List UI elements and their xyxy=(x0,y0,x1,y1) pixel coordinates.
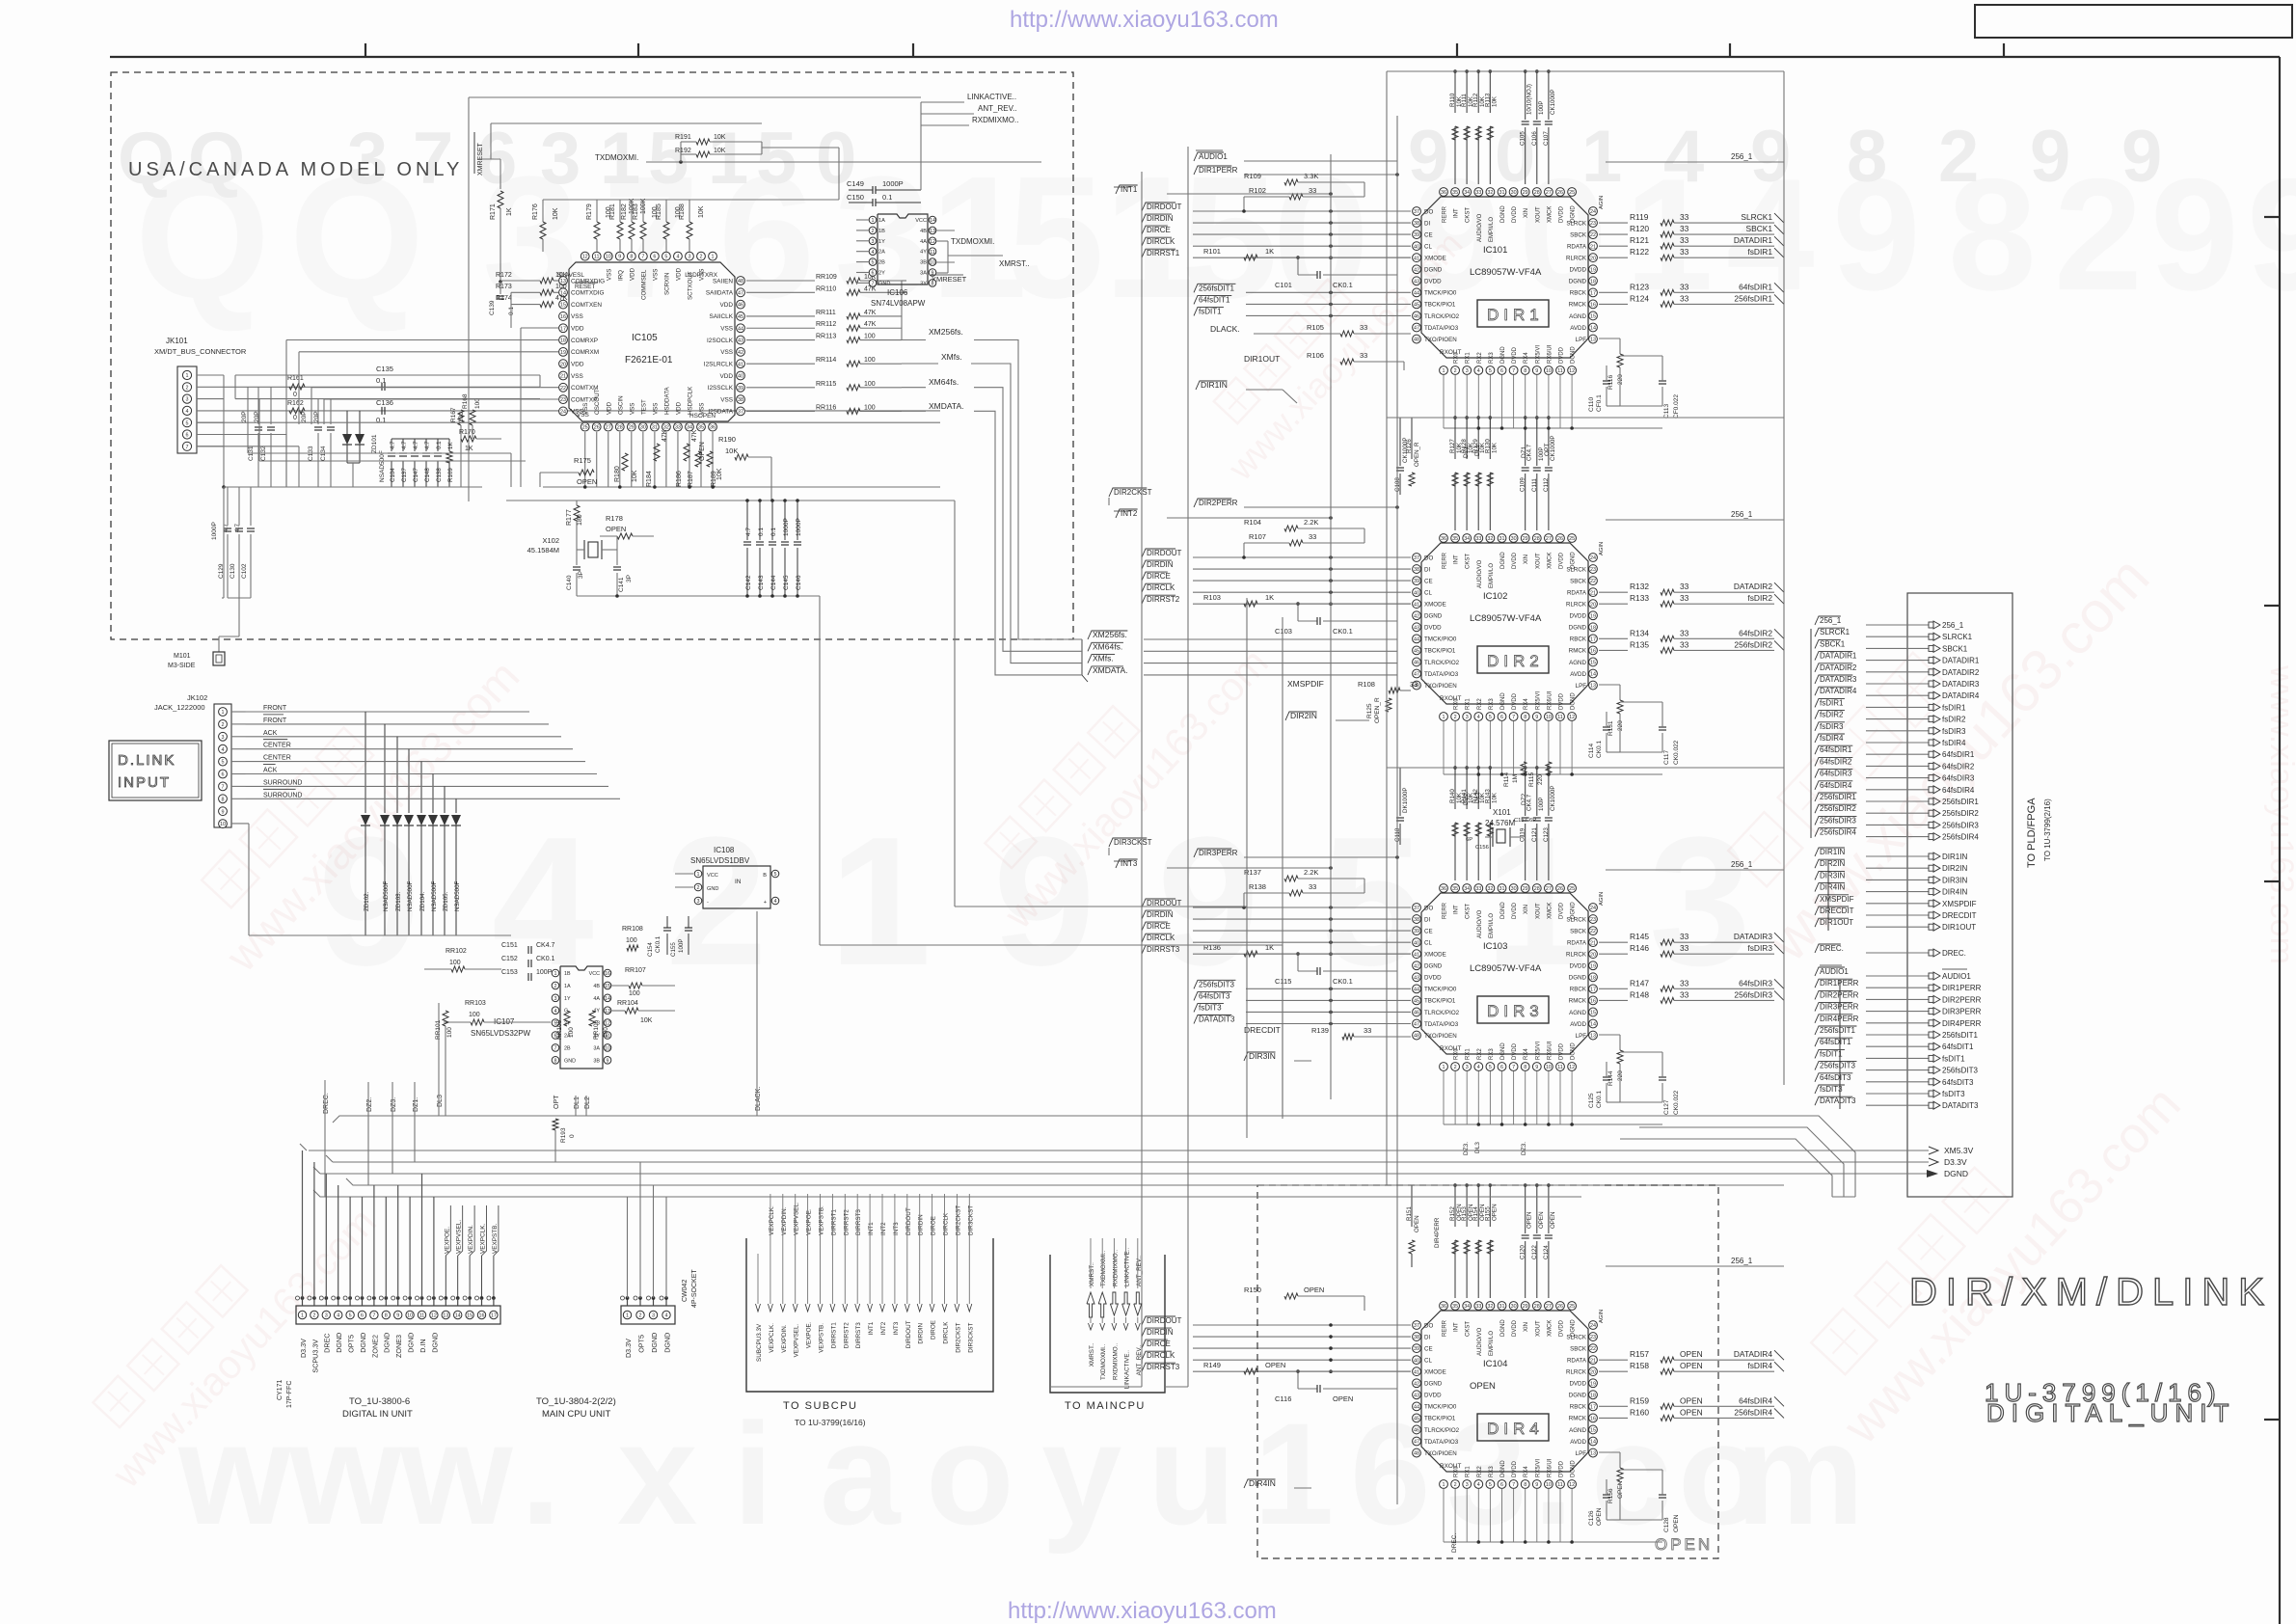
svg-text:C110: C110 xyxy=(1588,397,1595,412)
net stub DZ2. xyxy=(366,1082,373,1116)
svg-text:XMCK: XMCK xyxy=(1547,206,1553,223)
wire TXDMOXMI top xyxy=(646,161,1041,163)
svg-text:XMODE: XMODE xyxy=(1424,952,1446,959)
svg-text:C106: C106 xyxy=(1531,131,1538,146)
svg-text:RLRCK: RLRCK xyxy=(1566,1369,1587,1376)
svg-text:VDD: VDD xyxy=(629,267,635,281)
svg-text:DIR1IN: DIR1IN xyxy=(1201,380,1228,390)
svg-text:DVDD: DVDD xyxy=(1559,346,1565,364)
svg-text:DGND: DGND xyxy=(1500,1042,1506,1060)
svg-text:0: 0 xyxy=(293,415,297,421)
svg-text:RLRCK: RLRCK xyxy=(1566,602,1587,609)
svg-text:ZD105.: ZD105. xyxy=(443,891,449,911)
svg-text:DO: DO xyxy=(1424,1322,1433,1329)
svg-text:10K: 10K xyxy=(1491,442,1498,453)
svg-text:DVDD: DVDD xyxy=(1559,205,1565,223)
svg-text:R180: R180 xyxy=(614,466,621,482)
svg-text:DVDD: DVDD xyxy=(1512,1319,1518,1337)
svg-text:CE: CE xyxy=(1424,578,1433,584)
svg-text:10: 10 xyxy=(1546,715,1552,720)
svg-text:OPEN: OPEN xyxy=(1550,1211,1556,1229)
ic IC108 SN65LVDS1DBV xyxy=(675,846,779,908)
svg-text:x: x xyxy=(617,1393,697,1555)
rc network below-right of IC103 xyxy=(1588,1035,1680,1115)
svg-text:ZD103.: ZD103. xyxy=(395,891,402,911)
svg-text:RR109: RR109 xyxy=(816,274,837,281)
svg-text:DIR3PERR: DIR3PERR xyxy=(1199,849,1238,857)
svg-text:46: 46 xyxy=(1414,314,1419,320)
svg-text:17: 17 xyxy=(1590,290,1596,296)
svg-text:30: 30 xyxy=(1511,886,1517,892)
svg-text:64fsDIR3: 64fsDIR3 xyxy=(1820,770,1852,778)
svg-text:DIR2PERR: DIR2PERR xyxy=(1942,995,1982,1004)
svg-text:27: 27 xyxy=(606,425,611,431)
svg-text:fsDIT1: fsDIT1 xyxy=(1942,1054,1965,1063)
svg-text:2: 2 xyxy=(186,385,189,391)
svg-text:JK101: JK101 xyxy=(166,337,188,345)
svg-text:30: 30 xyxy=(640,425,646,431)
svg-text:15: 15 xyxy=(467,1313,473,1319)
svg-text:EMPII/LO: EMPII/LO xyxy=(1489,563,1495,588)
svg-text:RX5/VI: RX5/VI xyxy=(1535,345,1541,364)
svg-text:64fsDIT1: 64fsDIT1 xyxy=(1820,1038,1851,1046)
svg-text:C115: C115 xyxy=(1275,977,1291,986)
svg-text:5: 5 xyxy=(756,118,797,200)
svg-text:100P: 100P xyxy=(536,969,553,976)
svg-text:SLRCK: SLRCK xyxy=(1566,220,1587,227)
svg-text:DI: DI xyxy=(1424,220,1430,227)
svg-text:R143: R143 xyxy=(1484,789,1491,803)
svg-text:DIR2IN: DIR2IN xyxy=(1942,864,1967,873)
rc network below-right of IC102 xyxy=(1588,685,1680,765)
svg-text:256fsDIR4: 256fsDIR4 xyxy=(1734,1407,1772,1417)
svg-text:44: 44 xyxy=(1414,636,1419,642)
svg-text:10K: 10K xyxy=(632,470,638,482)
svg-text:16: 16 xyxy=(479,1313,485,1319)
svg-text:RMCK: RMCK xyxy=(1569,998,1587,1005)
svg-text:29: 29 xyxy=(1523,886,1528,892)
svg-text:64fsDIR1: 64fsDIR1 xyxy=(1820,745,1852,754)
net flags left of IC101 xyxy=(1114,166,1411,317)
svg-text:NSAD500F: NSAD500F xyxy=(383,880,390,911)
svg-text:DL1: DL1 xyxy=(1474,445,1481,456)
svg-text:33: 33 xyxy=(1680,212,1689,222)
svg-text:R145: R145 xyxy=(1630,932,1649,941)
svg-text:256fsDIR2: 256fsDIR2 xyxy=(1942,809,1979,818)
svg-text:LPF: LPF xyxy=(1576,1450,1587,1457)
svg-text:CK1000P: CK1000P xyxy=(1550,90,1556,116)
svg-text:DLACK.: DLACK. xyxy=(1210,324,1240,334)
svg-text:XMSPDIF: XMSPDIF xyxy=(1287,679,1324,689)
wires IC105 bottom stubs and rails xyxy=(506,432,955,501)
svg-text:20: 20 xyxy=(1590,602,1596,608)
svg-text:TXDMOXMI..: TXDMOXMI.. xyxy=(1100,1250,1107,1286)
svg-text:10K: 10K xyxy=(698,205,705,218)
svg-text:DIR2PERR: DIR2PERR xyxy=(1199,499,1238,507)
svg-text:35: 35 xyxy=(698,425,704,431)
resistor/capacitor bank above IC103 xyxy=(1394,766,1784,880)
svg-text:R174: R174 xyxy=(496,295,512,302)
svg-text:AUDIO/VO: AUDIO/VO xyxy=(1477,213,1483,242)
svg-text:AGIN: AGIN xyxy=(1599,892,1605,906)
connector CW042 4P-SOCKET xyxy=(621,1269,699,1324)
svg-text:DVDD: DVDD xyxy=(1559,1319,1565,1337)
svg-text:0.1: 0.1 xyxy=(882,193,892,202)
svg-text:11: 11 xyxy=(594,255,600,260)
svg-text:D.IN: D.IN xyxy=(419,1339,427,1352)
svg-text:DGND: DGND xyxy=(662,1333,671,1353)
svg-text:DIRDOUT: DIRDOUT xyxy=(1147,549,1182,557)
svg-text:RX3: RX3 xyxy=(1489,1048,1495,1060)
svg-text:C144: C144 xyxy=(770,575,777,590)
svg-text:34: 34 xyxy=(1464,190,1470,196)
svg-text:33: 33 xyxy=(1475,1304,1481,1310)
svg-text:TLRCK/PIO2: TLRCK/PIO2 xyxy=(1424,313,1460,320)
svg-text:1: 1 xyxy=(222,710,225,716)
svg-text:256fsDIR4: 256fsDIR4 xyxy=(1820,828,1856,837)
svg-text:AUDIO1: AUDIO1 xyxy=(1820,967,1849,976)
svg-text:DGND: DGND xyxy=(407,1333,416,1353)
svg-text:41: 41 xyxy=(1414,1369,1419,1375)
svg-text:IC108: IC108 xyxy=(714,846,735,854)
svg-text:TXDMOXMI..: TXDMOXMI.. xyxy=(1100,1343,1107,1380)
svg-text:26: 26 xyxy=(1557,886,1563,892)
svg-text:OPEN: OPEN xyxy=(1680,1395,1703,1405)
svg-text:D.LINK: D.LINK xyxy=(118,752,176,769)
wire IC105 section loop xyxy=(469,97,921,501)
svg-text:20P: 20P xyxy=(301,411,308,422)
svg-text:37: 37 xyxy=(1414,555,1419,561)
capacitor C150 0.1 xyxy=(847,193,921,206)
svg-text:64fsDIR2: 64fsDIR2 xyxy=(1942,762,1975,771)
svg-text:TDATA/PIO3: TDATA/PIO3 xyxy=(1424,1439,1459,1446)
svg-text:DGND: DGND xyxy=(430,1333,439,1353)
svg-text:4: 4 xyxy=(1477,1482,1480,1488)
svg-text:DK1000P: DK1000P xyxy=(1402,788,1409,814)
svg-text:27: 27 xyxy=(1546,1304,1552,1310)
svg-text:21: 21 xyxy=(1590,244,1596,250)
svg-text:32: 32 xyxy=(1487,536,1493,542)
svg-text:9: 9 xyxy=(1750,116,1791,198)
svg-text:45: 45 xyxy=(1414,649,1419,655)
svg-text:R172: R172 xyxy=(496,272,512,279)
svg-text:15: 15 xyxy=(1590,661,1596,666)
svg-text:DVDD: DVDD xyxy=(1569,613,1586,620)
svg-text:33: 33 xyxy=(1680,247,1689,257)
net stubs below IC103 xyxy=(1463,1142,1527,1155)
svg-text:100: 100 xyxy=(446,1027,453,1038)
svg-text:DIR3: DIR3 xyxy=(1487,1002,1544,1020)
svg-text:OPEN: OPEN xyxy=(699,442,706,461)
svg-text:DGND: DGND xyxy=(1500,552,1506,569)
svg-text:TLRCK/PIO2: TLRCK/PIO2 xyxy=(1424,1010,1460,1016)
svg-text:C149: C149 xyxy=(847,179,864,188)
wire JK101 outputs xyxy=(197,375,940,489)
svg-text:47K: 47K xyxy=(691,429,698,442)
svg-text:RERR: RERR xyxy=(1443,205,1448,223)
svg-text:8: 8 xyxy=(630,255,633,260)
svg-text:y: y xyxy=(1041,1393,1121,1555)
svg-text:1: 1 xyxy=(829,799,932,1004)
wire vertical bus x=1184 xyxy=(1141,172,1143,1387)
svg-text:R147: R147 xyxy=(1630,978,1649,988)
svg-text:15: 15 xyxy=(1590,1428,1596,1434)
svg-text:47K: 47K xyxy=(864,310,877,316)
svg-text:R156: R156 xyxy=(1607,1488,1614,1503)
svg-text:29: 29 xyxy=(629,425,635,431)
svg-text:2: 2 xyxy=(639,1313,642,1319)
svg-text:INT1: INT1 xyxy=(868,1222,875,1235)
svg-text:LPF: LPF xyxy=(1576,337,1587,343)
svg-text:100: 100 xyxy=(864,357,876,364)
svg-text:C126: C126 xyxy=(1588,1510,1595,1526)
svg-text:DZ2.: DZ2. xyxy=(366,1097,373,1112)
svg-text:45: 45 xyxy=(1414,303,1419,309)
svg-text:256_1: 256_1 xyxy=(1942,621,1964,630)
svg-text:DIR1PERR: DIR1PERR xyxy=(1942,984,1982,992)
svg-text:DI: DI xyxy=(1424,1334,1430,1340)
resistor R176 10K xyxy=(532,203,559,252)
svg-text:3: 3 xyxy=(652,1313,655,1319)
svg-text:OPEN: OPEN xyxy=(1673,1514,1680,1532)
svg-text:33: 33 xyxy=(675,425,681,431)
svg-text:EMPII/LO: EMPII/LO xyxy=(1489,913,1495,938)
capacitor C134 20P xyxy=(313,398,335,487)
svg-text:10: 10 xyxy=(1546,1482,1552,1488)
svg-text:47K: 47K xyxy=(864,285,877,292)
svg-text:1: 1 xyxy=(626,1313,629,1319)
svg-text:9: 9 xyxy=(1535,368,1538,374)
svg-text:TO 1U-3799(16/16): TO 1U-3799(16/16) xyxy=(795,1418,866,1427)
svg-text:17: 17 xyxy=(1590,636,1596,642)
svg-text:RLRCK: RLRCK xyxy=(1566,952,1587,959)
svg-text:13: 13 xyxy=(930,229,935,234)
resistor R171 1K xyxy=(490,191,513,284)
svg-text:INT: INT xyxy=(1454,1322,1460,1332)
svg-text:VEXPCLK.: VEXPCLK. xyxy=(480,1224,487,1254)
svg-text:RXDMIXMO..: RXDMIXMO.. xyxy=(1112,1343,1119,1380)
capacitor C154 CK0.1 xyxy=(647,916,671,957)
arrows and labels inside MAINCPU bracket xyxy=(1087,1238,1143,1389)
svg-text:fsDIR2: fsDIR2 xyxy=(1747,593,1772,603)
resistor R183 100 xyxy=(633,200,659,252)
svg-text:DI: DI xyxy=(1424,566,1430,573)
svg-text:fsDIT3: fsDIT3 xyxy=(1199,1003,1222,1012)
svg-text:29: 29 xyxy=(1523,1304,1528,1310)
svg-text:RR114: RR114 xyxy=(816,357,836,364)
svg-text:37: 37 xyxy=(1414,1323,1419,1329)
svg-text:TXO/PIOEN: TXO/PIOEN xyxy=(1424,1450,1457,1457)
resistor R175 OPEN xyxy=(540,456,597,487)
svg-text:RDATA: RDATA xyxy=(1567,1357,1587,1364)
svg-text:COMRXP: COMRXP xyxy=(571,338,598,344)
svg-text:DIRCE: DIRCE xyxy=(1147,572,1171,581)
svg-text:DZ2.: DZ2. xyxy=(1521,792,1527,805)
svg-text:33: 33 xyxy=(1309,532,1316,541)
svg-text:DGND: DGND xyxy=(1569,625,1587,632)
resistor R190 10K xyxy=(718,435,771,501)
wires CW042 risers xyxy=(628,1162,667,1298)
svg-text:33: 33 xyxy=(1680,628,1689,637)
svg-text:TDATA/PIO3: TDATA/PIO3 xyxy=(1424,671,1459,678)
svg-text:0: 0 xyxy=(1273,141,1369,335)
svg-text:4: 4 xyxy=(665,1313,668,1319)
svg-text:4: 4 xyxy=(676,255,679,260)
capacitor C140 3P xyxy=(566,567,584,596)
svg-text:256fsDIR2: 256fsDIR2 xyxy=(1734,639,1772,649)
svg-text:1000P: 1000P xyxy=(211,522,218,540)
svg-text:C124: C124 xyxy=(1543,1245,1550,1259)
svg-text:I2SOCLK: I2SOCLK xyxy=(707,338,734,344)
svg-text:fsDIT3: fsDIT3 xyxy=(1942,1090,1965,1098)
svg-text:ZONE2: ZONE2 xyxy=(370,1335,379,1358)
svg-text:47: 47 xyxy=(738,290,743,296)
svg-text:DVDD: DVDD xyxy=(1559,1460,1565,1477)
svg-text:1: 1 xyxy=(1254,1393,1334,1555)
svg-text:CK4.7: CK4.7 xyxy=(536,942,555,949)
svg-text:DIRRST2: DIRRST2 xyxy=(843,1209,850,1235)
net label DIR1OUT / resistor R106 33 xyxy=(1244,351,1404,370)
svg-text:2: 2 xyxy=(312,1313,315,1319)
svg-text:DIR3IN: DIR3IN xyxy=(1942,876,1967,884)
svg-text:OPEN: OPEN xyxy=(577,477,597,486)
svg-text:R158: R158 xyxy=(1630,1361,1649,1370)
svg-text:VEXPCLK.: VEXPCLK. xyxy=(769,1205,775,1235)
svg-text:C140: C140 xyxy=(566,575,573,590)
svg-text:RERR: RERR xyxy=(1443,902,1448,919)
ic IC105 F2621E-01 (QFP48) xyxy=(557,252,744,431)
svg-text:33: 33 xyxy=(1680,235,1689,245)
svg-text:36: 36 xyxy=(1441,1304,1446,1310)
svg-text:1: 1 xyxy=(1443,368,1445,374)
svg-text:47: 47 xyxy=(1414,1022,1419,1028)
svg-text:CK0.1: CK0.1 xyxy=(655,935,662,953)
svg-text:SAIICLK: SAIICLK xyxy=(709,313,733,320)
svg-text:33: 33 xyxy=(1309,882,1316,891)
svg-text:ANT_REV..: ANT_REV.. xyxy=(1136,1344,1143,1375)
svg-text:4: 4 xyxy=(1477,715,1480,720)
svg-text:DIR4PERR: DIR4PERR xyxy=(1942,1019,1982,1028)
svg-text:DIRRST2: DIRRST2 xyxy=(843,1322,850,1348)
svg-text:45: 45 xyxy=(738,314,743,320)
svg-text:fsDIR3: fsDIR3 xyxy=(1747,943,1772,953)
svg-text:DIR3IN: DIR3IN xyxy=(1820,871,1845,880)
svg-text:RXDMIXMO..: RXDMIXMO.. xyxy=(1112,1250,1119,1286)
svg-text:OPEN: OPEN xyxy=(1680,1407,1703,1417)
svg-text:R150: R150 xyxy=(1244,1286,1261,1294)
svg-text:CK0.1: CK0.1 xyxy=(1596,1091,1603,1108)
svg-text:12: 12 xyxy=(1569,1065,1575,1070)
svg-text:256fsDIR1: 256fsDIR1 xyxy=(1942,798,1979,806)
svg-text:22: 22 xyxy=(1590,1346,1596,1352)
capacitor C129 1000P xyxy=(211,487,231,598)
svg-text:R110: R110 xyxy=(1449,93,1456,107)
svg-text:100: 100 xyxy=(469,1012,480,1018)
svg-text:28: 28 xyxy=(617,425,623,431)
svg-text:10: 10 xyxy=(407,1313,413,1319)
svg-text:256fsDIT3: 256fsDIT3 xyxy=(1199,980,1234,988)
svg-text:CE: CE xyxy=(1424,928,1433,934)
svg-text:18: 18 xyxy=(560,338,566,344)
net flag DIR3IN xyxy=(1244,1051,1311,1061)
svg-text:DIRCLK: DIRCLK xyxy=(1147,1351,1175,1360)
svg-text:6: 6 xyxy=(186,433,189,439)
svg-text:10: 10 xyxy=(606,255,611,260)
svg-text:SURROUND: SURROUND xyxy=(263,792,302,798)
svg-text:4.7: 4.7 xyxy=(413,441,419,449)
svg-text:36: 36 xyxy=(1441,886,1446,892)
wires IC105 right-side resistors to XM nets xyxy=(746,274,906,414)
net label 256_1 (DIR4) xyxy=(1606,1257,1784,1266)
svg-text:19: 19 xyxy=(1590,267,1596,273)
svg-text:256fsDIT3: 256fsDIT3 xyxy=(1820,1062,1855,1070)
svg-text:SBCK: SBCK xyxy=(1570,231,1587,238)
svg-text:CK0.1: CK0.1 xyxy=(1333,627,1353,636)
svg-text:C103: C103 xyxy=(1275,627,1292,636)
svg-text:41: 41 xyxy=(1414,256,1419,261)
svg-text:1A: 1A xyxy=(878,218,885,224)
svg-text:3: 3 xyxy=(325,1313,328,1319)
svg-text:100: 100 xyxy=(568,1027,575,1038)
svg-text:DI: DI xyxy=(1424,916,1430,923)
svg-text:AGND: AGND xyxy=(1569,313,1586,320)
svg-text:F2621E-01: F2621E-01 xyxy=(625,355,673,365)
svg-text:3.3K: 3.3K xyxy=(1304,172,1318,180)
svg-text:DIRDOUT: DIRDOUT xyxy=(1147,1316,1182,1325)
svg-text:VSS: VSS xyxy=(571,373,583,380)
svg-text:SN65LVDS1DBV: SN65LVDS1DBV xyxy=(690,856,750,865)
svg-text:40: 40 xyxy=(1414,940,1419,946)
svg-text:COMTXEN: COMTXEN xyxy=(571,302,602,309)
svg-text:IN: IN xyxy=(735,879,742,885)
svg-text:64fsDIT1: 64fsDIT1 xyxy=(1942,1042,1974,1051)
svg-text:42: 42 xyxy=(1414,267,1419,273)
svg-text:DGND: DGND xyxy=(1569,1393,1587,1399)
svg-text:OPEN: OPEN xyxy=(606,525,626,533)
svg-text:D3.3V: D3.3V xyxy=(624,1339,633,1358)
svg-text:9: 9 xyxy=(396,1313,399,1319)
resistor RR102 100 xyxy=(424,948,501,972)
svg-text:256_1: 256_1 xyxy=(1731,152,1753,161)
svg-text:R131: R131 xyxy=(1607,720,1614,736)
svg-text:DIRCE: DIRCE xyxy=(1147,226,1171,234)
svg-text:fsDIR2: fsDIR2 xyxy=(1820,711,1844,719)
svg-text:47K: 47K xyxy=(555,295,568,302)
svg-text:25: 25 xyxy=(1569,536,1575,542)
svg-text:LINKACTIVE..: LINKACTIVE.. xyxy=(1124,1248,1131,1286)
svg-text:10: 10 xyxy=(1546,368,1552,374)
svg-text:C141: C141 xyxy=(618,577,625,592)
svg-text:8: 8 xyxy=(1847,116,1887,198)
svg-text:R109: R109 xyxy=(1244,172,1261,180)
svg-text:100P: 100P xyxy=(678,939,685,953)
svg-text:40: 40 xyxy=(738,374,743,380)
svg-text:64fsDIR1: 64fsDIR1 xyxy=(1942,750,1975,759)
resistor/capacitor bank above IC101 xyxy=(1397,69,1784,184)
region box DIR4 OPEN (dashed) xyxy=(1257,1185,1718,1558)
net flags XM256fs/XM64fs/XMfs/XMDATA (to DIR2) xyxy=(1082,630,1397,682)
svg-text:33: 33 xyxy=(1360,323,1367,332)
svg-text:XMDATA.: XMDATA. xyxy=(929,401,964,411)
svg-text:fsDIT3: fsDIT3 xyxy=(1820,1085,1843,1094)
svg-text:24.576M: 24.576M xyxy=(1485,819,1515,827)
svg-text:DIRRST1: DIRRST1 xyxy=(830,1209,837,1235)
svg-text:XMRST..: XMRST.. xyxy=(999,259,1030,268)
svg-text:RX1: RX1 xyxy=(1466,1466,1472,1477)
svg-text:19: 19 xyxy=(1590,1381,1596,1387)
svg-text:64fsDIR1: 64fsDIR1 xyxy=(1739,282,1772,291)
wire main bus edge y=1157 xyxy=(333,1116,1774,1123)
